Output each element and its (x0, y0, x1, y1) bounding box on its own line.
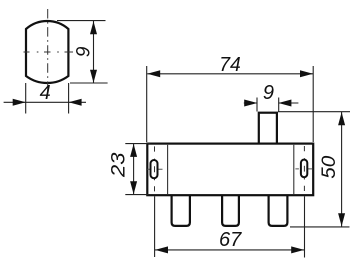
dimension 23 arrow down (130, 181, 137, 194)
dimension 50 arrow down (338, 213, 345, 226)
dimension 67 right arrow (291, 246, 304, 253)
stub on top (259, 113, 277, 146)
dimension 9 (stub) left arrow (244, 100, 257, 107)
left view vertical centerline (47, 9, 49, 91)
dimension 23 dimension line (133, 144, 135, 195)
dimension 4 dimension line (4, 101, 86, 103)
dimension 9 (stub) dimension line segments (244, 102, 299, 104)
right slot centerline (303, 146, 305, 191)
inner step line right (293, 145, 295, 194)
dimension 9 (stub) extension lines (257, 98, 279, 112)
dimension 50 arrow up (338, 112, 345, 125)
dimension 4 left arrow (13, 99, 26, 106)
right slot (301, 160, 307, 178)
dimension 23 extension lines (125, 144, 150, 195)
right slot inner dash (303, 166, 305, 172)
dimension 23 arrow up (130, 144, 137, 157)
leg 2 (222, 190, 239, 226)
svg-text:23: 23 (109, 152, 130, 178)
dimension 74 left arrow (147, 70, 160, 77)
dimension 67 left arrow (155, 246, 168, 253)
dimension 50 dimension line (341, 112, 343, 227)
dimension 9 (left view) extension lines (57, 21, 108, 83)
left view: oval end profile (26, 21, 68, 83)
left slot (151, 160, 158, 178)
dimension 9 (left view) arrow up (90, 21, 97, 34)
leg 3 (269, 190, 288, 226)
dimension 67 dimension line (155, 249, 304, 251)
left slot center tick (147, 168, 162, 170)
svg-text:9: 9 (263, 82, 274, 104)
dimension 9 (stub) right arrow (278, 100, 291, 107)
svg-text:9: 9 (73, 46, 94, 57)
dimension 74 dimension line (147, 73, 313, 75)
dimension 9 (left view) arrow down (90, 70, 97, 83)
svg-text:74: 74 (219, 54, 241, 76)
leg 1 (172, 190, 190, 226)
left view horizontal centerline (24, 51, 74, 53)
dimension 74 right arrow (300, 70, 313, 77)
left slot inner dash (154, 166, 156, 172)
svg-text:50: 50 (319, 155, 340, 178)
right slot center tick (295, 168, 312, 170)
dimension 74 extension lines (147, 66, 314, 142)
left slot centerline (154, 146, 156, 191)
dimension 4 right arrow (69, 99, 82, 106)
dimension 50 extension lines (278, 112, 350, 227)
inner step line left (167, 145, 169, 194)
dimension 4 extension lines (26, 83, 69, 114)
left slot centerline extension to 67 dim (154, 196, 156, 257)
svg-text:4: 4 (40, 82, 51, 104)
right slot centerline extension to 67 dim (304, 196, 306, 257)
dimension 9 (left view) dimension line (93, 21, 95, 83)
main body (147, 144, 313, 196)
svg-text:67: 67 (219, 229, 242, 251)
